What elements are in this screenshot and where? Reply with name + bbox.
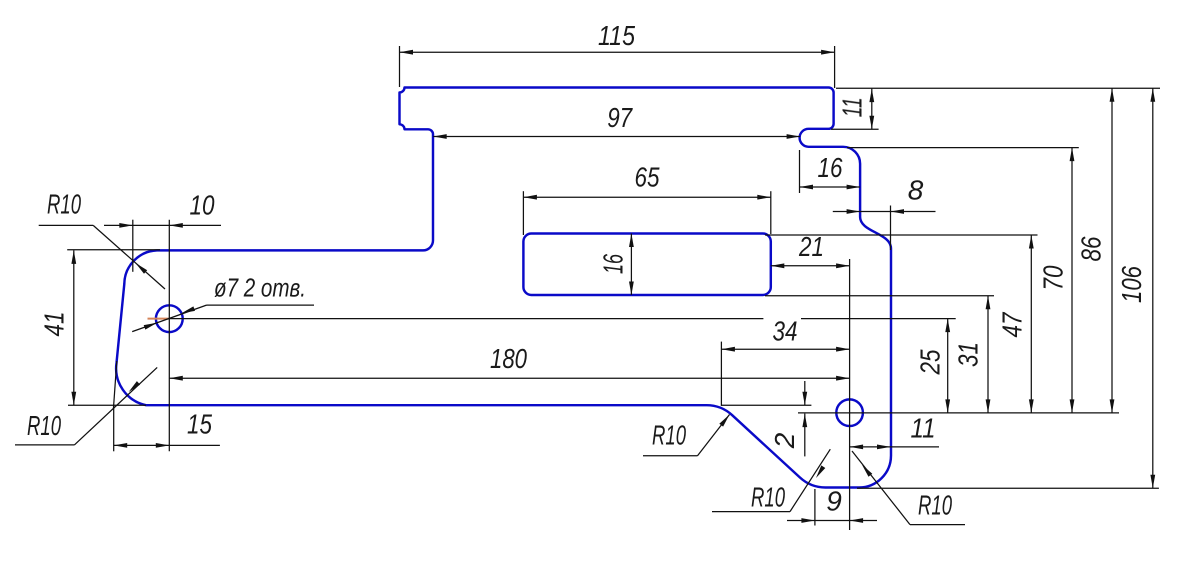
- dim 47 line: [1030, 235, 1032, 413]
- dim 16 slot arrows: [629, 234, 634, 248]
- ext 15 left: [113, 406, 115, 452]
- ext bottom edge right (2): [721, 404, 811, 406]
- svg-text:86: 86: [1076, 236, 1107, 261]
- ext 65 left: [522, 191, 524, 235]
- dim 9 arrows: [801, 518, 815, 523]
- dim 15 arrows: [114, 443, 128, 448]
- dim 41 line: [73, 250, 75, 405]
- dim 11 bottom arrows: [850, 445, 864, 450]
- dim 11 bottom line: [850, 446, 939, 448]
- leader R10 top-left arrow: [136, 263, 148, 274]
- leader R10 top-left: [39, 224, 93, 226]
- svg-text:R10: R10: [751, 482, 785, 513]
- dim 31 arrows: [986, 296, 991, 310]
- dim 34 arrows: [721, 347, 735, 352]
- dim 16 hook arrows: [800, 185, 814, 190]
- ext hook top (11): [831, 128, 879, 130]
- svg-text:8: 8: [908, 175, 924, 206]
- svg-text:31: 31: [953, 342, 984, 367]
- part outline: [116, 88, 891, 488]
- dim 65 line: [523, 196, 770, 198]
- dim 70 line: [1071, 148, 1073, 413]
- ext slot bottom (31): [765, 295, 994, 297]
- svg-text:16: 16: [598, 254, 629, 274]
- dim 25 line: [947, 319, 949, 413]
- svg-text:47: 47: [997, 311, 1028, 337]
- leader R10 slope-lower: [712, 511, 790, 513]
- leader R10 bottom-right arrow: [862, 465, 872, 477]
- svg-text:R10: R10: [47, 189, 81, 220]
- dim 34 line: [721, 348, 849, 350]
- centerline hole right horiz: [798, 412, 1119, 414]
- ext 115 left: [399, 46, 401, 87]
- centerline hole left vert: [168, 220, 170, 452]
- svg-text:25: 25: [915, 349, 946, 375]
- centerline hole left horiz 2: [801, 318, 956, 320]
- svg-text:180: 180: [490, 343, 527, 374]
- svg-text:10: 10: [190, 190, 215, 221]
- svg-text:11: 11: [911, 413, 936, 444]
- dim 15 line: [114, 444, 220, 446]
- dim 11 tab arrows: [869, 89, 874, 103]
- leader R10 bottom-right: [910, 524, 965, 526]
- svg-text:106: 106: [1116, 266, 1147, 303]
- centerline hole right vert: [849, 259, 851, 530]
- ext 8 right: [890, 206, 892, 251]
- dim 65 arrows: [523, 195, 537, 200]
- dim 2 line lower: [804, 414, 806, 457]
- dim 25 arrows: [945, 319, 950, 333]
- leader R10 bottom-left: [15, 444, 74, 446]
- ext slot top (47): [765, 234, 1038, 236]
- svg-text:R10: R10: [918, 490, 952, 521]
- ext 16 hook left: [799, 150, 801, 193]
- dim 16 slot line: [630, 234, 632, 296]
- svg-text:R10: R10: [27, 410, 61, 441]
- centermark orange: [148, 318, 170, 320]
- dim 21 arrows: [771, 263, 785, 268]
- dim 11 tab line: [871, 89, 873, 130]
- dim 97 arrows: [433, 134, 447, 139]
- dim 115 arrows: [400, 50, 414, 55]
- svg-text:2: 2: [769, 432, 800, 449]
- ext 10 left: [132, 220, 134, 272]
- dim 97 line: [433, 136, 800, 138]
- svg-text:115: 115: [598, 20, 635, 51]
- svg-text:65: 65: [635, 162, 660, 193]
- dim 47 arrows: [1029, 235, 1034, 249]
- svg-text:15: 15: [187, 409, 212, 440]
- ext 34 left: [720, 342, 722, 406]
- leader R10 slope-upper arrow: [719, 415, 729, 427]
- svg-text:34: 34: [773, 316, 798, 347]
- centerline hole left horiz: [169, 318, 763, 320]
- slot (65x16 opening): [523, 234, 770, 296]
- dim 8 arrows: [847, 209, 861, 214]
- svg-text:21: 21: [798, 231, 824, 262]
- svg-text:11: 11: [837, 97, 868, 117]
- dim 31 line: [987, 296, 989, 413]
- leader R10 bottom-left arrow: [129, 381, 141, 392]
- leader d7 line: [132, 305, 206, 332]
- ext bottom lowest (106): [857, 487, 1159, 489]
- dim 106 line: [1152, 88, 1154, 488]
- svg-text:41: 41: [39, 312, 70, 337]
- dim 86 line: [1111, 88, 1113, 413]
- dim 115 line: [400, 51, 835, 53]
- ext 115 right: [834, 46, 836, 88]
- dim 8 line: [833, 211, 936, 213]
- ext 9 left: [814, 489, 816, 526]
- ext top edge right: [836, 87, 1160, 89]
- leader d7 arrows: [144, 323, 158, 330]
- dim 70 arrows: [1070, 148, 1075, 162]
- ext hook bottom (70): [847, 147, 1079, 149]
- svg-text:97: 97: [607, 102, 633, 133]
- dim 180 line: [169, 377, 849, 379]
- leader R10 slope-upper: [643, 455, 698, 457]
- svg-text:70: 70: [1038, 265, 1069, 290]
- dim 2 arrows: [802, 392, 807, 406]
- dim 86 arrows: [1110, 88, 1115, 102]
- dim 2 line upper: [804, 381, 806, 405]
- svg-text:ø7 2 отв.: ø7 2 отв.: [214, 273, 306, 303]
- svg-text:9: 9: [826, 486, 842, 517]
- dim 41 arrows: [71, 250, 76, 264]
- dim 10 line: [104, 224, 221, 226]
- dim 21 line: [771, 265, 850, 267]
- dim 16 hook line: [800, 186, 861, 188]
- hole left (d7): [156, 305, 183, 332]
- ext top arm edge (41): [67, 249, 160, 251]
- dim 9 line: [787, 520, 877, 522]
- ext left edge slant: [113, 361, 116, 409]
- ext 65 right: [770, 191, 772, 234]
- hole right (d7): [836, 399, 863, 426]
- dim 106 arrows: [1150, 88, 1155, 102]
- ext bottom edge left (41): [68, 404, 146, 406]
- svg-text:16: 16: [818, 152, 843, 183]
- svg-text:R10: R10: [652, 420, 686, 451]
- dim 180 arrows: [169, 376, 183, 381]
- dim 10 arrows: [119, 223, 133, 228]
- leader R10 slope-lower arrow: [816, 465, 825, 478]
